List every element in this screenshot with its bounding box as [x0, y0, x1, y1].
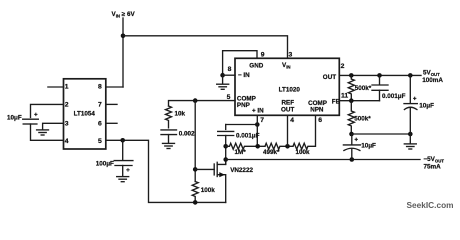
capacitor C6 10uF minus rail [351, 134, 353, 145]
wire C1 bottom to pin4 [31, 124, 64, 140]
svg-text:+ IN: + IN [252, 108, 264, 115]
op-amp U2 LT1020 [235, 58, 339, 115]
wire -5V rail [226, 159, 420, 161]
node 10uF junction [350, 157, 355, 162]
svg-text:3: 3 [65, 120, 69, 127]
svg-text:LT1054: LT1054 [74, 111, 96, 118]
svg-text:500k*: 500k* [354, 116, 371, 123]
wire LT1054 pin5 out [106, 140, 226, 202]
svg-text:NPN: NPN [310, 107, 324, 114]
op-amp U1 LT1054 [64, 79, 106, 149]
svg-text:OUT: OUT [323, 74, 336, 81]
node FB junction [349, 98, 354, 103]
ground [404, 144, 416, 149]
resistor R2 100k [192, 182, 198, 203]
wire LT1054 pin3 to ground [43, 123, 64, 129]
svg-text:+: + [413, 95, 417, 102]
svg-text:OUT: OUT [281, 106, 294, 113]
wire VIN horizontal to LT1020 pin3 [123, 36, 288, 59]
resistor R6 500k* top [348, 75, 354, 100]
wire to ground [222, 75, 224, 83]
svg-text:7: 7 [98, 102, 102, 109]
svg-text:0.001μF: 0.001μF [382, 93, 406, 100]
svg-text:10k: 10k [175, 111, 186, 118]
node mid ground line right [408, 132, 413, 137]
svg-text:GND: GND [249, 62, 263, 69]
node 10uF top [408, 73, 413, 78]
wire LT1054 pin6 stub [106, 122, 117, 124]
svg-text:3: 3 [289, 52, 293, 59]
svg-text:+: + [126, 167, 130, 174]
node -5V rail junction [223, 157, 228, 162]
wire +IN node horizontal [226, 124, 258, 126]
node mid ground line left [349, 132, 354, 137]
svg-text:500k*: 500k* [355, 85, 372, 92]
wire pin7 vertical [256, 115, 258, 146]
wire mid ground line [352, 133, 411, 135]
svg-text:+: + [354, 137, 358, 144]
node pin4 chain junction [285, 144, 290, 149]
svg-text:4: 4 [65, 138, 69, 145]
svg-text:1M*: 1M* [235, 149, 247, 156]
resistor R1 10k [166, 106, 172, 128]
wire LT1054 pin1 stub [48, 86, 64, 88]
ground [217, 84, 229, 89]
ground [117, 177, 129, 182]
svg-text:2: 2 [341, 63, 345, 70]
wire LT1054 pin7 stub [106, 103, 117, 105]
node -IN junction [220, 73, 225, 78]
wire COMP PNP (LT1020 pin5) [169, 101, 236, 106]
wire pin4 vertical [287, 115, 289, 146]
node pin7 chain junction [255, 144, 260, 149]
svg-text:100k: 100k [296, 149, 311, 156]
wire pin8 LT1054 to VIN column [106, 86, 123, 88]
svg-text:VN2222: VN2222 [230, 167, 253, 174]
svg-text:4: 4 [290, 117, 294, 124]
node 0.001 top [377, 73, 382, 78]
capacitor C7 10uF plus rail [409, 75, 411, 103]
svg-text:FB: FB [332, 98, 341, 105]
svg-text:0.001μF: 0.001μF [236, 133, 260, 140]
node gate junction [193, 167, 198, 172]
wire pin8 -IN stub [223, 74, 235, 76]
wire gate column [194, 101, 196, 182]
resistor R4 499k* [265, 143, 293, 149]
node 1M junction [223, 144, 228, 149]
svg-text:100mA: 100mA [422, 77, 443, 84]
svg-text:10μF: 10μF [419, 102, 434, 109]
svg-text:2: 2 [65, 102, 69, 109]
resistor R5 100k [293, 115, 316, 149]
svg-text:10μF: 10μF [361, 143, 376, 150]
capacitor C3 0.002 [161, 129, 177, 131]
node gate column junction [193, 98, 198, 103]
capacitor C1 10uF [23, 118, 39, 120]
capacitor C5 0.001uF [379, 75, 381, 84]
svg-text:6: 6 [98, 120, 102, 127]
svg-text:499k*: 499k* [263, 149, 280, 156]
svg-text:PNP: PNP [237, 102, 250, 109]
svg-text:− IN: − IN [238, 72, 250, 79]
svg-text:+: + [34, 111, 38, 118]
wire FB [339, 100, 379, 102]
wire VIN vertical [122, 18, 124, 87]
node VIN junction [121, 34, 126, 39]
svg-text:8: 8 [228, 66, 232, 73]
capacitor C4 0.001uF [225, 125, 227, 130]
transistor Q1 VN2222 [214, 160, 253, 203]
node +IN junction [255, 122, 260, 127]
svg-text:1: 1 [65, 84, 69, 91]
svg-text:9: 9 [261, 52, 265, 59]
wire pin9 GND loop [223, 51, 257, 75]
wire gate [195, 168, 214, 170]
wire OUT rail [339, 74, 421, 76]
ground [37, 130, 49, 135]
capacitor C2 100uF [122, 140, 124, 160]
wire LT1054 pin2 [31, 104, 64, 117]
svg-text:SeekIC.com: SeekIC.com [407, 200, 454, 210]
node 500k top [349, 73, 354, 78]
node bottom rail junction [193, 200, 198, 205]
svg-text:10μF: 10μF [7, 115, 22, 122]
svg-text:11: 11 [341, 92, 348, 99]
svg-text:0.002: 0.002 [179, 130, 195, 137]
svg-text:5: 5 [227, 94, 231, 101]
svg-text:75mA: 75mA [424, 163, 442, 170]
resistor R7 500k* bottom [348, 101, 354, 134]
svg-text:LT1020: LT1020 [279, 87, 301, 94]
resistor R3 1M* [226, 143, 265, 149]
svg-text:100μF: 100μF [96, 160, 114, 167]
ground [163, 143, 175, 148]
svg-text:5: 5 [98, 138, 102, 145]
svg-text:8: 8 [98, 84, 102, 91]
node pin5/C2 junction [120, 138, 125, 143]
svg-text:6: 6 [318, 117, 322, 124]
svg-text:100k: 100k [201, 187, 216, 194]
svg-text:7: 7 [260, 117, 264, 124]
